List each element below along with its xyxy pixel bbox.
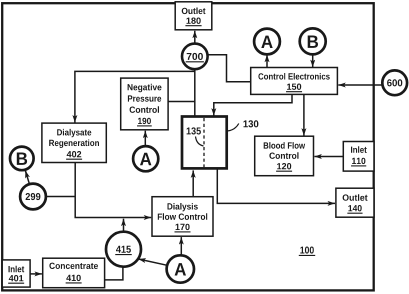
wire node A mid to Negative Pressure Control [144,131,146,147]
wire node A bottom to Dialysis Flow Control [180,237,182,255]
wire Concentrate to 415 [105,267,123,280]
node A top [254,29,280,55]
box Inlet 110 [343,142,374,172]
box Inlet 401 [2,260,30,287]
wire 700 to Outlet 180 [194,31,196,44]
box Concentrate 410 [43,258,105,288]
node A mid [133,146,158,171]
wire Inlet 401 to Concentrate [30,273,42,275]
wire Control Electronics to dialyzer top [214,95,292,116]
box Control Electronics 150 [251,68,338,95]
node B top [300,28,326,54]
wire Control Electronics to node A top [266,55,268,68]
box Outlet 180 [175,2,212,30]
circle 700 [182,44,208,70]
label 100 [299,247,315,256]
wire Control Electronics to Blood Flow Control [303,95,305,136]
wire 600 to Control Electronics [338,84,382,86]
node A bottom [167,255,194,282]
wire Inlet 110 to Blood Flow Control [314,156,343,158]
box Dialysis Flow Control 170 [152,197,213,237]
circle 415 [106,232,141,267]
wire node B top to Control Electronics [312,54,314,67]
wire 700 to Control Electronics [208,55,251,82]
wire 415 to flow line [123,219,125,232]
box Dialysate Regeneration 402 [42,123,106,162]
membrane dashed line 135 [203,118,205,167]
wire 700 down to dialyzer top [194,69,196,116]
dialyzer box 130 [182,117,227,169]
circle 299 [20,184,46,210]
wire Dialysis Flow Control to dialyzer bottom [192,170,194,196]
wire Negative Pressure Control to dialyzer line [168,101,195,103]
wire node A bottom to 415 [138,259,167,265]
label 135 [187,127,204,146]
box Blood Flow Control 120 [255,136,314,176]
box Outlet 140 [336,188,374,217]
wire dialyzer bottom to Outlet 140 [217,170,335,204]
wire 299 to node B left [25,171,29,185]
node B left [10,147,34,171]
wire branch to Dialysate Regeneration [75,71,195,122]
wire 299 junction [46,196,75,198]
circle 600 [382,70,407,95]
label 130 [227,120,258,131]
wire Dialysate Regeneration to Dialysis Flow Control [75,163,151,218]
box Negative Pressure Control 190 [121,78,168,130]
